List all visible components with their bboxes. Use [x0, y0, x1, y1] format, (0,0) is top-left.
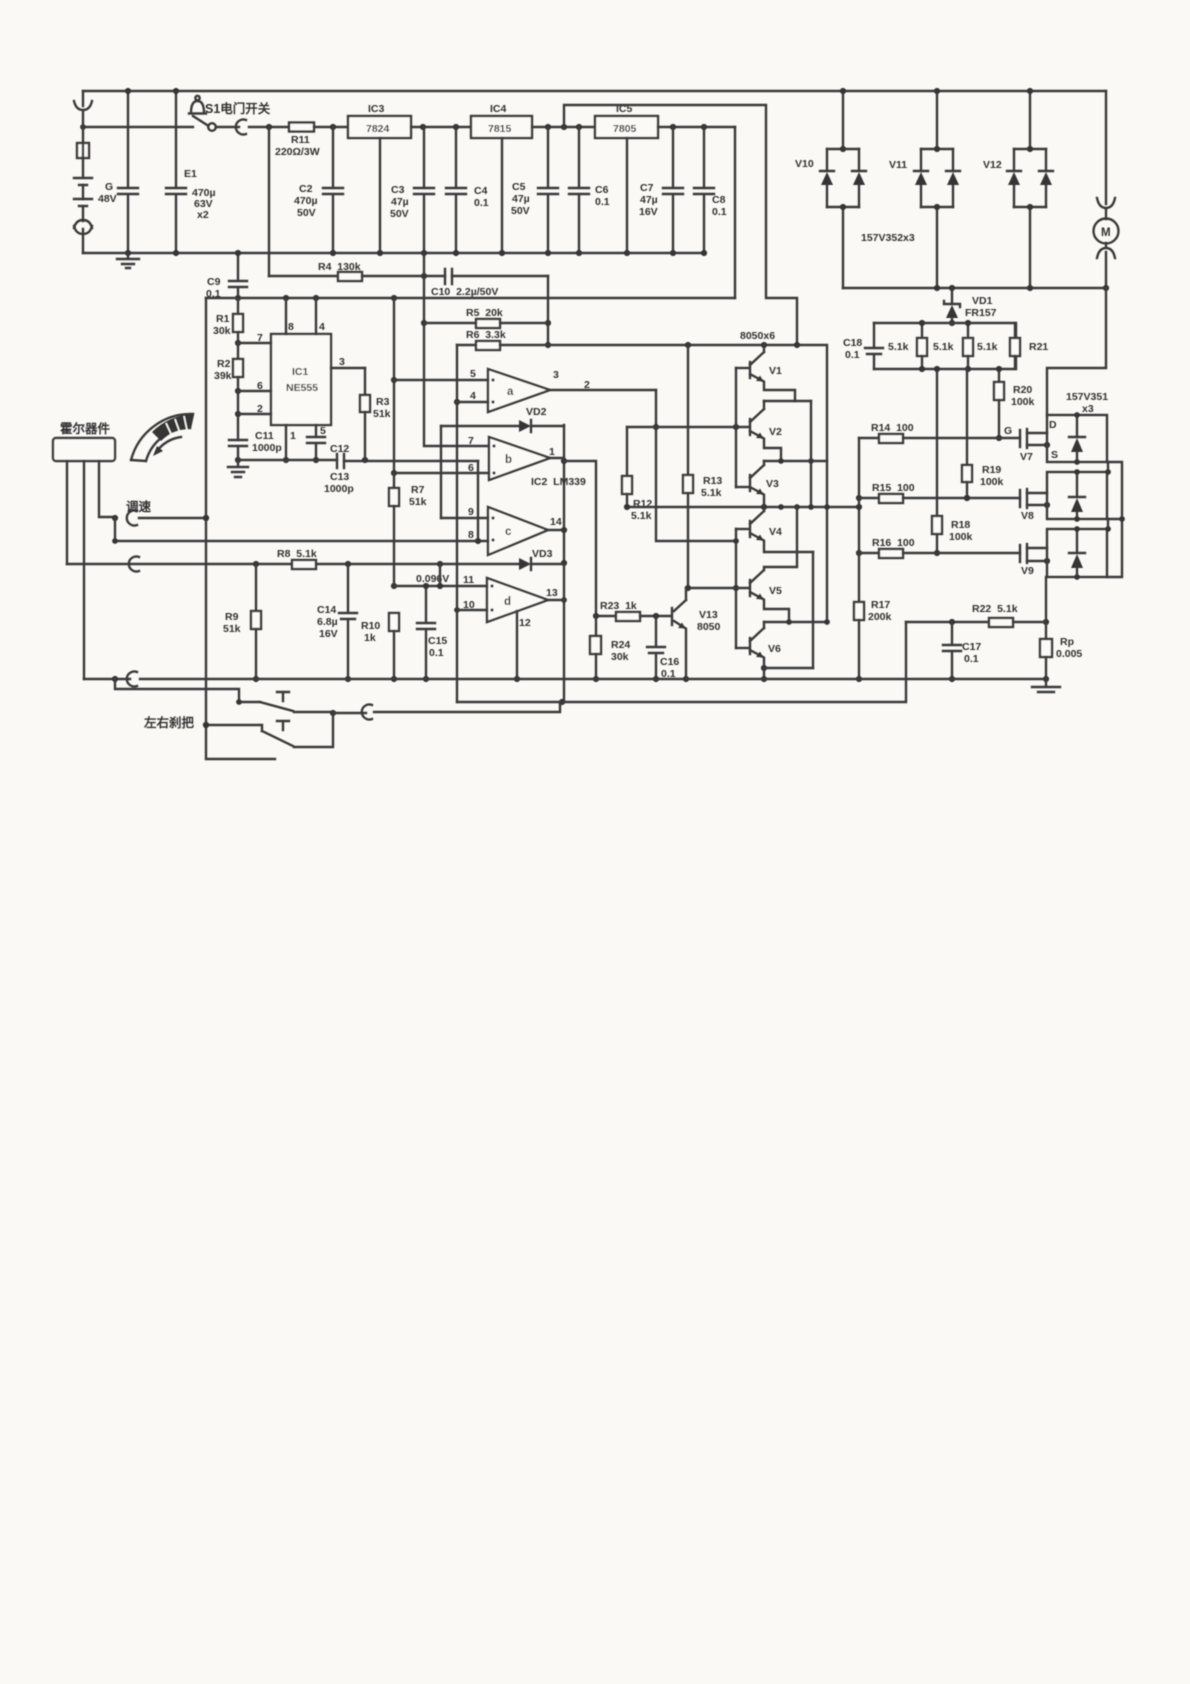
wire pin 7: [238, 332, 271, 344]
capacitor C18 and bias network frame: [843, 323, 1016, 369]
svg-text:3: 3: [339, 356, 345, 368]
diode pair V11: [889, 88, 960, 288]
diode VD3: [519, 548, 564, 570]
svg-text:3: 3: [553, 369, 559, 381]
svg-text:R17: R17: [871, 599, 890, 611]
wire pin 3: [331, 356, 365, 368]
svg-text:51k: 51k: [373, 408, 391, 420]
svg-text:R16 100: R16 100: [872, 537, 915, 549]
label 0.096V: [416, 573, 449, 585]
regulator IC5 7805: [595, 103, 658, 256]
svg-text:47µ: 47µ: [640, 194, 658, 206]
svg-text:0.1: 0.1: [429, 647, 444, 659]
svg-text:R18: R18: [951, 519, 970, 531]
svg-text:16V: 16V: [319, 628, 338, 640]
svg-text:100k: 100k: [1011, 396, 1035, 408]
svg-text:30k: 30k: [611, 651, 629, 663]
comparator c: [115, 506, 564, 555]
svg-text:IC2 LM339: IC2 LM339: [531, 476, 586, 488]
resistor R18 100k: [932, 516, 973, 543]
svg-text:R13: R13: [703, 475, 722, 487]
resistor R1 30k: [213, 298, 243, 346]
svg-text:M: M: [1101, 227, 1111, 239]
svg-text:R11: R11: [291, 134, 310, 146]
svg-text:V1: V1: [769, 365, 782, 377]
svg-text:47µ: 47µ: [512, 193, 530, 205]
svg-text:R8 5.1k: R8 5.1k: [277, 548, 317, 560]
svg-text:16V: 16V: [639, 206, 658, 218]
resistor R13 5.1k: [683, 345, 722, 588]
battery G 48V: [74, 91, 117, 253]
capacitor C16 0.1: [647, 616, 679, 682]
svg-text:470µ: 470µ: [294, 195, 318, 207]
svg-text:0.1: 0.1: [964, 653, 979, 665]
resistor R11: [266, 123, 348, 159]
wire base line (comp-a to V2): [627, 424, 749, 430]
svg-text:C11: C11: [255, 430, 274, 442]
resistor R10 1k: [361, 613, 399, 682]
brake switch lower: [203, 713, 333, 747]
bell icon: [189, 96, 206, 114]
wire V6 emitter bus link: [764, 667, 813, 669]
label 157V352x3: [861, 232, 915, 244]
svg-text:0.1: 0.1: [845, 349, 860, 361]
svg-text:R4 130k: R4 130k: [318, 261, 361, 273]
svg-text:V4: V4: [769, 526, 782, 538]
wire V4/V6 base tie: [733, 529, 739, 648]
wire left control drop: [206, 298, 275, 759]
junction speed drop: [203, 515, 209, 728]
wire motor feed: [1097, 91, 1115, 288]
svg-text:200k: 200k: [868, 611, 892, 623]
svg-text:7824: 7824: [366, 123, 390, 135]
wire descender to R16 line: [934, 366, 940, 556]
svg-text:50V: 50V: [297, 207, 316, 219]
wire V2 emitter / V3 collector link: [764, 458, 827, 464]
svg-text:5: 5: [320, 425, 326, 437]
svg-text:0.1: 0.1: [595, 196, 610, 208]
capacitor E1: [166, 88, 216, 256]
svg-text:4: 4: [470, 390, 476, 402]
wire brake line join: [374, 702, 560, 712]
svg-text:1000p: 1000p: [324, 483, 354, 495]
svg-text:C13: C13: [330, 471, 349, 483]
svg-text:R19: R19: [982, 464, 1001, 476]
wire brake supply stub: [115, 679, 239, 702]
wire emitter mid bus: [624, 504, 859, 510]
MOSFET V9: [1020, 544, 1050, 577]
svg-text:V13: V13: [699, 609, 718, 621]
svg-text:0.005: 0.005: [1056, 648, 1082, 660]
wire switch feed line: [80, 124, 193, 130]
transistor V2: [750, 401, 782, 461]
svg-text:13: 13: [546, 587, 558, 599]
wire R4 node drop x424: [421, 253, 489, 446]
svg-text:R6 3.3k: R6 3.3k: [466, 329, 506, 341]
resistor R21 5.1k (3): [977, 323, 1048, 369]
svg-text:V9: V9: [1021, 565, 1034, 577]
svg-text:VD3: VD3: [532, 548, 553, 560]
svg-text:50V: 50V: [511, 205, 530, 217]
hall wire 1 (signal to R8): [66, 461, 68, 564]
svg-text:FR157: FR157: [965, 307, 997, 319]
brake switch upper: [236, 692, 336, 716]
svg-text:V10: V10: [795, 158, 814, 170]
svg-text:C2: C2: [299, 183, 313, 195]
wire IC5 output: [658, 124, 735, 130]
transistor V1: [736, 345, 795, 401]
wire comparator d pin12: [514, 611, 520, 682]
svg-text:C7: C7: [640, 182, 654, 194]
wire comparator output bus x564: [559, 425, 567, 705]
comparator a: [394, 368, 656, 412]
body diode box V8: [1047, 469, 1107, 522]
resistor R23 1k: [593, 600, 671, 621]
wire top +48V rail: [83, 90, 1106, 92]
label 8050x6: [740, 330, 775, 342]
resistor R20 100k: [994, 366, 1035, 441]
svg-text:6: 6: [468, 462, 474, 474]
resistor R22 5.1k: [906, 603, 1046, 627]
svg-text:C3: C3: [391, 184, 405, 196]
ground under C11: [228, 460, 248, 477]
svg-text:47µ: 47µ: [391, 196, 409, 208]
wire drain bus: [1105, 462, 1111, 532]
wire current sense line: [457, 622, 906, 702]
svg-text:R14 100: R14 100: [871, 422, 914, 434]
svg-text:VD1: VD1: [972, 295, 993, 307]
svg-text:157V352x3: 157V352x3: [861, 232, 915, 244]
connector brake: [143, 705, 372, 731]
resistor R8 5.1k: [67, 548, 519, 572]
svg-text:2: 2: [584, 379, 590, 391]
svg-text:V8: V8: [1021, 510, 1034, 522]
transistor V13 8050: [672, 588, 721, 682]
resistor R12 5.1k: [622, 427, 652, 522]
wire source to shunt: [1043, 577, 1049, 625]
resistor R6 3.3k: [457, 329, 548, 350]
MOSFET V7: [1020, 419, 1058, 463]
svg-text:b: b: [505, 454, 512, 466]
svg-text:8050x6: 8050x6: [740, 330, 775, 342]
svg-text:x3: x3: [1082, 403, 1094, 415]
wire drop x813: [812, 552, 814, 668]
diode pair V10: [795, 88, 866, 288]
resistor 5.1k (1): [888, 320, 927, 372]
comparator b: [394, 435, 564, 480]
wire IC4 bypass over IC5: [564, 105, 797, 345]
wire timing net with C13: [238, 454, 478, 495]
svg-text:V2: V2: [769, 426, 782, 438]
diode VD2: [441, 406, 564, 518]
connector ground return: [127, 672, 137, 687]
wire pin 2: [238, 403, 271, 415]
svg-text:7815: 7815: [488, 123, 512, 135]
wire gate divider bus x859: [856, 438, 862, 602]
svg-text:C5: C5: [512, 181, 526, 193]
wire driver rail (8050 bases supply): [548, 342, 827, 622]
wire +5V distribution rail: [206, 295, 735, 301]
svg-text:C9: C9: [207, 276, 221, 288]
svg-text:0.1: 0.1: [712, 206, 727, 218]
transistor V4: [736, 507, 813, 552]
svg-text:100k: 100k: [949, 531, 973, 543]
svg-text:0.096V: 0.096V: [416, 573, 449, 585]
svg-text:C6: C6: [595, 184, 609, 196]
transistor V5: [750, 507, 797, 622]
svg-text:48V: 48V: [98, 193, 117, 205]
resistor 5.1k (2): [933, 320, 973, 372]
body diode box V7: [1047, 412, 1107, 465]
wire hall signal to comparator c: [112, 518, 118, 544]
wire R6 drop x457 to pin4/pin10/sense: [454, 345, 460, 702]
svg-text:6.8µ: 6.8µ: [317, 616, 338, 628]
svg-text:C16: C16: [660, 656, 679, 668]
svg-text:V7: V7: [1020, 451, 1033, 463]
svg-text:7: 7: [468, 435, 474, 447]
svg-text:5.1k: 5.1k: [701, 487, 722, 499]
svg-text:霍尔器件: 霍尔器件: [60, 421, 111, 436]
svg-text:S1电门开关: S1电门开关: [205, 101, 271, 116]
resistor R24 30k: [590, 616, 630, 682]
svg-text:220Ω/3W: 220Ω/3W: [275, 146, 320, 158]
svg-text:C8: C8: [712, 194, 726, 206]
svg-text:IC1: IC1: [292, 366, 309, 378]
wire V10-V12 lower rail: [843, 285, 1109, 291]
svg-text:9: 9: [468, 506, 474, 518]
capacitor C8: [694, 127, 727, 256]
wire comparator output to R23 node: [564, 461, 596, 616]
svg-text:V6: V6: [768, 643, 781, 655]
svg-text:V11: V11: [889, 159, 907, 171]
capacitor C3: [390, 127, 434, 256]
svg-text:100k: 100k: [980, 476, 1004, 488]
svg-text:S: S: [1051, 449, 1058, 461]
transistor V6: [736, 622, 781, 682]
label S1 switch: [205, 101, 271, 116]
svg-text:8: 8: [288, 321, 294, 333]
svg-text:R15 100: R15 100: [872, 482, 915, 494]
wire pin 6: [238, 380, 271, 392]
svg-text:50V: 50V: [390, 208, 409, 220]
svg-text:G: G: [1004, 425, 1012, 437]
wire IC5 output drop to +5V rail: [734, 127, 736, 298]
wire R4 branch vertical: [268, 127, 270, 276]
ground (battery negative): [117, 253, 139, 268]
MOSFET V8: [1020, 489, 1050, 522]
wire C13 node riser: [477, 461, 479, 541]
capacitor C1: [118, 88, 138, 256]
wire V1 emitter / V2 collector link: [764, 400, 811, 402]
svg-text:5.1k: 5.1k: [933, 341, 954, 353]
svg-text:4: 4: [319, 321, 325, 333]
capacitor C17 0.1: [943, 622, 981, 682]
svg-text:R10: R10: [361, 620, 380, 632]
svg-text:R23 1k: R23 1k: [600, 600, 637, 612]
svg-text:11: 11: [463, 574, 474, 586]
wire bottom power rail: [83, 252, 704, 254]
wire ground rail: [84, 676, 1046, 682]
wire drain feed to MOSFETs: [1047, 288, 1106, 415]
svg-text:C4: C4: [474, 185, 488, 197]
svg-text:8: 8: [468, 529, 474, 541]
resistor R7 51k: [389, 473, 427, 589]
capacitor C10 (series): [431, 269, 548, 298]
svg-text:14: 14: [550, 516, 562, 528]
svg-text:C18: C18: [843, 337, 862, 349]
svg-text:x2: x2: [197, 209, 209, 221]
IC IC1 NE555: [271, 334, 331, 425]
svg-text:C10 2.2µ/50V: C10 2.2µ/50V: [431, 286, 498, 298]
svg-text:调速: 调速: [126, 499, 152, 514]
svg-text:IC3: IC3: [368, 103, 385, 115]
svg-text:a: a: [507, 386, 514, 398]
svg-text:R3: R3: [376, 396, 390, 408]
regulator IC3 7824: [348, 103, 411, 256]
resistor R3 51k: [360, 368, 391, 460]
svg-text:1000p: 1000p: [252, 442, 282, 454]
resistor R19 100k: [962, 369, 1004, 501]
capacitor C5: [511, 127, 558, 256]
wire C10 drop to R5/R6: [545, 276, 551, 348]
svg-text:7805: 7805: [613, 123, 637, 135]
svg-text:5.1k: 5.1k: [977, 341, 998, 353]
svg-text:VD2: VD2: [526, 406, 547, 418]
hall wire 3 (supply / speed): [99, 461, 118, 521]
svg-text:IC4: IC4: [490, 103, 507, 115]
svg-text:d: d: [504, 596, 511, 608]
svg-text:R9: R9: [225, 611, 239, 623]
svg-text:10: 10: [463, 599, 475, 611]
svg-text:8050: 8050: [697, 621, 721, 633]
wire source bus: [1107, 462, 1125, 577]
svg-text:D: D: [1049, 419, 1057, 431]
capacitor C14 6.8u 16V: [317, 564, 357, 682]
svg-text:6: 6: [257, 380, 263, 392]
motor M: [1094, 219, 1119, 244]
svg-text:V12: V12: [983, 159, 1002, 171]
svg-text:Rp: Rp: [1060, 636, 1074, 648]
svg-text:R5 20k: R5 20k: [466, 307, 503, 319]
resistor Rp 0.005: [1040, 622, 1082, 682]
wire V5 base line from V13: [685, 585, 749, 591]
svg-text:R24: R24: [611, 639, 630, 651]
svg-text:E1: E1: [184, 168, 197, 180]
capacitor C2: [294, 127, 343, 256]
capacitor C4: [446, 127, 489, 256]
svg-text:R21: R21: [1029, 341, 1048, 353]
wire pin 8: [286, 298, 294, 334]
resistor R9 51k: [223, 564, 261, 682]
svg-text:30k: 30k: [213, 325, 231, 337]
resistor R5 20k: [424, 307, 548, 328]
svg-text:R20: R20: [1013, 384, 1032, 396]
body diode box V9: [1047, 526, 1107, 580]
svg-text:R1: R1: [216, 313, 230, 325]
wire comp-a output drop to driver bases: [653, 390, 736, 541]
diode VD1 FR157: [944, 288, 997, 326]
regulator IC4 7815: [471, 103, 532, 256]
wire IC3 to IC4: [411, 124, 471, 130]
svg-text:1: 1: [290, 430, 296, 442]
resistor R15 100: [859, 482, 1020, 503]
svg-text:5.1k: 5.1k: [888, 341, 909, 353]
svg-text:1k: 1k: [364, 632, 376, 644]
transistor V3: [736, 461, 779, 507]
diode pair V12: [983, 88, 1053, 288]
svg-text:C14: C14: [317, 604, 336, 616]
resistor R16 100: [859, 537, 1020, 558]
capacitor C12 / pin 5: [307, 425, 349, 463]
wire rail drop x394: [391, 298, 397, 476]
wire pin 4: [316, 298, 325, 334]
svg-text:0.1: 0.1: [474, 197, 489, 209]
wire IC4 to IC5: [532, 124, 595, 130]
svg-text:39k: 39k: [214, 370, 232, 382]
svg-text:51k: 51k: [409, 496, 427, 508]
svg-text:157V351: 157V351: [1066, 391, 1108, 403]
svg-text:c: c: [505, 526, 512, 538]
svg-text:5.1k: 5.1k: [631, 510, 652, 522]
wire pin 1: [283, 425, 296, 463]
svg-text:C17: C17: [962, 641, 981, 653]
svg-text:R7: R7: [411, 484, 425, 496]
resistor R14 100: [859, 422, 1020, 443]
svg-text:1: 1: [549, 446, 555, 458]
svg-text:R2: R2: [217, 358, 231, 370]
svg-text:R22 5.1k: R22 5.1k: [972, 603, 1018, 615]
wire R8 to pin11 link: [437, 564, 443, 589]
ground main: [1032, 679, 1060, 692]
connector speed control: [126, 499, 209, 526]
svg-text:2: 2: [257, 403, 263, 415]
svg-text:左右刹把: 左右刹把: [143, 715, 195, 730]
wire V1/V3 base tie: [735, 368, 737, 487]
hall wire 2 (ground): [83, 461, 85, 679]
hall sensor box: [53, 421, 115, 461]
label IC2 LM339: [531, 476, 586, 488]
svg-text:5: 5: [470, 368, 476, 380]
svg-text:V5: V5: [769, 585, 782, 597]
wire V5 emitter / V6 collector link: [764, 619, 830, 625]
svg-text:NE555: NE555: [286, 382, 318, 394]
svg-text:51k: 51k: [223, 623, 241, 635]
resistor R2 39k: [214, 343, 243, 440]
switch S1: [193, 116, 289, 135]
svg-text:G: G: [105, 181, 113, 193]
comparator d: [394, 574, 564, 629]
wire drop x811: [808, 401, 814, 507]
svg-text:V3: V3: [766, 478, 779, 490]
svg-text:7: 7: [257, 332, 263, 344]
capacitor C15 0.1: [417, 583, 447, 682]
capacitor C11 1000p: [229, 430, 282, 463]
capacitor C7: [639, 127, 683, 256]
resistor R4 130k: [269, 261, 445, 281]
magnet arc: [131, 414, 193, 461]
svg-text:C15: C15: [428, 635, 447, 647]
resistor R17 200k: [854, 599, 892, 682]
capacitor C6: [569, 127, 610, 256]
capacitor C9: [206, 250, 247, 301]
svg-text:12: 12: [519, 617, 531, 629]
fuse: [77, 143, 89, 158]
label 157V351 x3: [1066, 391, 1108, 415]
svg-text:C12: C12: [330, 443, 349, 455]
